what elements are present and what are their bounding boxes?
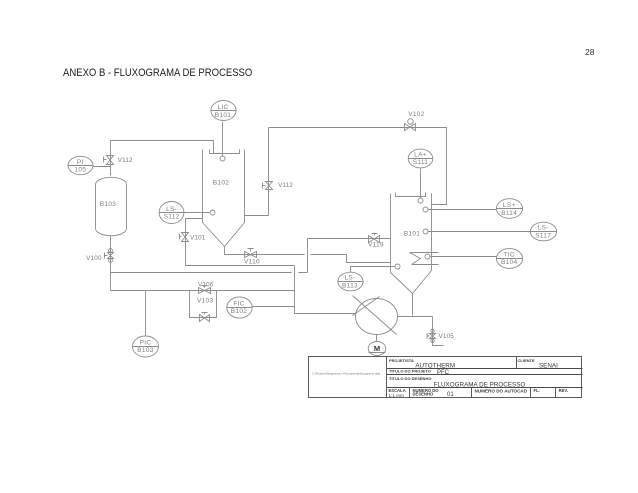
heater element	[410, 253, 439, 265]
svg-text:PI: PI	[77, 159, 84, 166]
vessel B101	[391, 194, 432, 294]
svg-text:V101: V101	[190, 234, 206, 241]
svg-text:LS+: LS+	[503, 202, 516, 209]
svg-text:B103: B103	[100, 201, 116, 208]
wire pump discharge	[398, 316, 433, 318]
svg-text:V100: V100	[86, 255, 102, 262]
svg-text:LS-: LS-	[166, 206, 177, 213]
wire V103 bypass loop	[190, 291, 217, 318]
instrument PI 105	[68, 156, 94, 174]
svg-text:B114: B114	[501, 210, 517, 217]
svg-text:B113: B113	[342, 283, 358, 290]
wire to LS+B114	[428, 209, 497, 211]
svg-text:S117: S117	[535, 232, 551, 239]
svg-text:C:\Projetos\Diagramas e Fluxog: C:\Projetos\Diagramas e Fluxogramas\flux…	[312, 371, 380, 375]
svg-text:PIC: PIC	[140, 339, 152, 346]
wire FIC link	[252, 306, 295, 308]
svg-text:TITULO DO DESENHO: TITULO DO DESENHO	[389, 376, 431, 381]
svg-text:PROJETISTA: PROJETISTA	[389, 358, 414, 363]
vessel B103	[96, 177, 127, 235]
svg-text:B103: B103	[137, 347, 153, 354]
instrument LS- B113	[338, 272, 364, 291]
wire B102 to V112 riser	[245, 128, 269, 216]
node S112 probe tip	[210, 210, 215, 215]
instrument TIC B104	[496, 249, 522, 269]
node B101 nozzle upper	[423, 207, 428, 212]
svg-text:REV.: REV.	[559, 388, 568, 393]
svg-text:B102: B102	[231, 308, 247, 315]
svg-text:V119: V119	[368, 242, 384, 249]
wire top-left feed pipe	[111, 141, 214, 154]
vessel B102	[203, 150, 245, 247]
svg-text:CLIENTE: CLIENTE	[518, 358, 535, 363]
wire collector vertical and pump suction	[295, 266, 357, 314]
svg-text:S112: S112	[164, 214, 180, 221]
svg-text:105: 105	[74, 167, 86, 174]
wire B102 drain to V101	[186, 219, 295, 266]
svg-text:S111: S111	[413, 159, 429, 166]
wire PI tap	[93, 166, 111, 168]
svg-text:LA+: LA+	[414, 151, 427, 158]
wire LS-S112 probe	[185, 212, 210, 214]
node LIC nozzle	[220, 156, 225, 161]
svg-text:DESENHO: DESENHO	[413, 392, 434, 397]
svg-text:LS-: LS-	[344, 275, 355, 282]
valve V102	[405, 119, 416, 131]
svg-text:B101: B101	[404, 230, 420, 237]
wire B103 outlet	[110, 236, 112, 291]
valve V106	[199, 286, 211, 294]
svg-text:1:1 mm: 1:1 mm	[389, 393, 404, 398]
wire LS-B113 probe	[351, 267, 396, 273]
valve V105	[427, 329, 436, 343]
wire PIC drop	[145, 291, 147, 336]
svg-text:TITULO DO PROJETO: TITULO DO PROJETO	[389, 369, 431, 374]
svg-text:FIC: FIC	[233, 300, 244, 307]
svg-text:B104: B104	[501, 259, 517, 266]
wire to LS-S117	[428, 231, 531, 233]
svg-text:B102: B102	[213, 180, 229, 187]
svg-text:FLUXOGRAMA DE PROCESSO: FLUXOGRAMA DE PROCESSO	[434, 381, 526, 388]
node LA+ nozzle	[418, 198, 423, 203]
svg-text:V102: V102	[408, 111, 424, 118]
wire top header pipe	[269, 128, 447, 205]
svg-text:NUMERO DO AUTOCAD: NUMERO DO AUTOCAD	[475, 389, 528, 394]
wire V105 drain branch	[433, 317, 444, 346]
wire line L1 to V119 riser	[111, 239, 391, 273]
valve V112 (upper left)	[104, 156, 114, 165]
svg-text:V112: V112	[278, 182, 293, 189]
wire V110 transfer line	[225, 255, 391, 263]
svg-text:M: M	[374, 344, 380, 353]
wire motor link	[376, 335, 378, 342]
svg-text:LS-: LS-	[538, 225, 549, 232]
wire vertical into B103	[110, 141, 112, 176]
title block	[309, 357, 583, 398]
node B101 nozzle lower	[423, 229, 428, 234]
valve V100	[105, 249, 114, 263]
wire LIC drop	[222, 122, 224, 156]
instrument FIC B102	[227, 297, 253, 318]
svg-text:LIC: LIC	[217, 104, 228, 111]
svg-text:SENAI: SENAI	[539, 362, 558, 369]
svg-text:V110: V110	[244, 259, 260, 266]
svg-text:TIC: TIC	[504, 251, 515, 258]
instrument LS- S112	[159, 202, 184, 224]
svg-text:V112: V112	[118, 157, 133, 164]
svg-text:V105: V105	[439, 333, 455, 340]
svg-text:V106: V106	[198, 281, 214, 288]
wire line L2 V106 run	[111, 290, 295, 292]
svg-text:PFC: PFC	[437, 370, 450, 376]
valve V119	[369, 234, 380, 243]
svg-text:V103: V103	[197, 298, 213, 305]
instrument PIC B103	[133, 336, 159, 357]
instrument LIC B101	[211, 101, 237, 121]
valve V101	[180, 233, 189, 242]
pump P101	[356, 299, 398, 335]
svg-text:FL.: FL.	[534, 388, 540, 393]
instrument LA+ S111	[408, 149, 433, 168]
svg-text:B101: B101	[215, 112, 231, 119]
instrument LS- S117	[530, 222, 556, 241]
valve V110	[245, 249, 257, 258]
valve V112 (middle)	[263, 182, 273, 190]
node heater sensor	[425, 254, 430, 259]
svg-text:01: 01	[447, 392, 454, 398]
valve V103	[200, 313, 210, 322]
node B113 probe tip	[395, 264, 400, 269]
wire LA+ drop	[420, 169, 422, 199]
motor M	[368, 342, 386, 356]
instrument LS+ B114	[496, 199, 522, 219]
wire to TIC B104	[431, 256, 497, 258]
